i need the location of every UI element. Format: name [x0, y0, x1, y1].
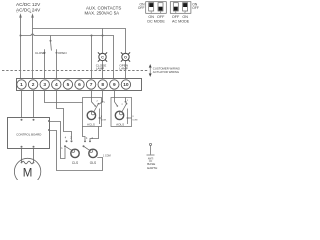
svg-text:C: C	[101, 56, 104, 60]
svg-text:M: M	[23, 168, 33, 180]
svg-text:CLS: CLS	[72, 161, 78, 165]
svg-text:1: 1	[20, 82, 23, 88]
svg-text:AC MODE: AC MODE	[172, 19, 190, 23]
svg-text:7: 7	[90, 82, 93, 88]
svg-text:OFF: OFF	[192, 6, 199, 10]
svg-text:8: 8	[101, 82, 104, 88]
svg-text:OLS: OLS	[90, 161, 96, 165]
svg-text:COM: COM	[132, 119, 137, 121]
svg-text:COM: COM	[101, 119, 106, 121]
svg-text:4: 4	[55, 82, 58, 88]
svg-text:10: 10	[123, 82, 129, 88]
svg-text:OPEN: OPEN	[58, 51, 67, 55]
svg-text:CONTROL BOARD: CONTROL BOARD	[16, 132, 41, 136]
svg-text:DC MODE: DC MODE	[147, 19, 165, 23]
svg-text:AOLS: AOLS	[116, 123, 124, 127]
svg-text:9: 9	[113, 82, 116, 88]
svg-text:MAX. 250VAC 5A: MAX. 250VAC 5A	[85, 11, 120, 16]
svg-text:EARTH: EARTH	[147, 166, 157, 170]
svg-text:2: 2	[32, 82, 35, 88]
svg-text:OFF: OFF	[138, 6, 145, 10]
svg-text:6: 6	[78, 82, 81, 88]
svg-text:5: 5	[67, 82, 70, 88]
svg-text:CLOSE: CLOSE	[35, 51, 45, 55]
svg-text:ACLS: ACLS	[87, 123, 95, 127]
svg-text:3: 3	[43, 82, 46, 88]
svg-text:O: O	[124, 56, 127, 60]
svg-text:ANTI: ANTI	[148, 158, 154, 161]
svg-text:1 COM: 1 COM	[103, 155, 111, 158]
svg-text:ACTUATOR WIRING: ACTUATOR WIRING	[153, 70, 179, 74]
